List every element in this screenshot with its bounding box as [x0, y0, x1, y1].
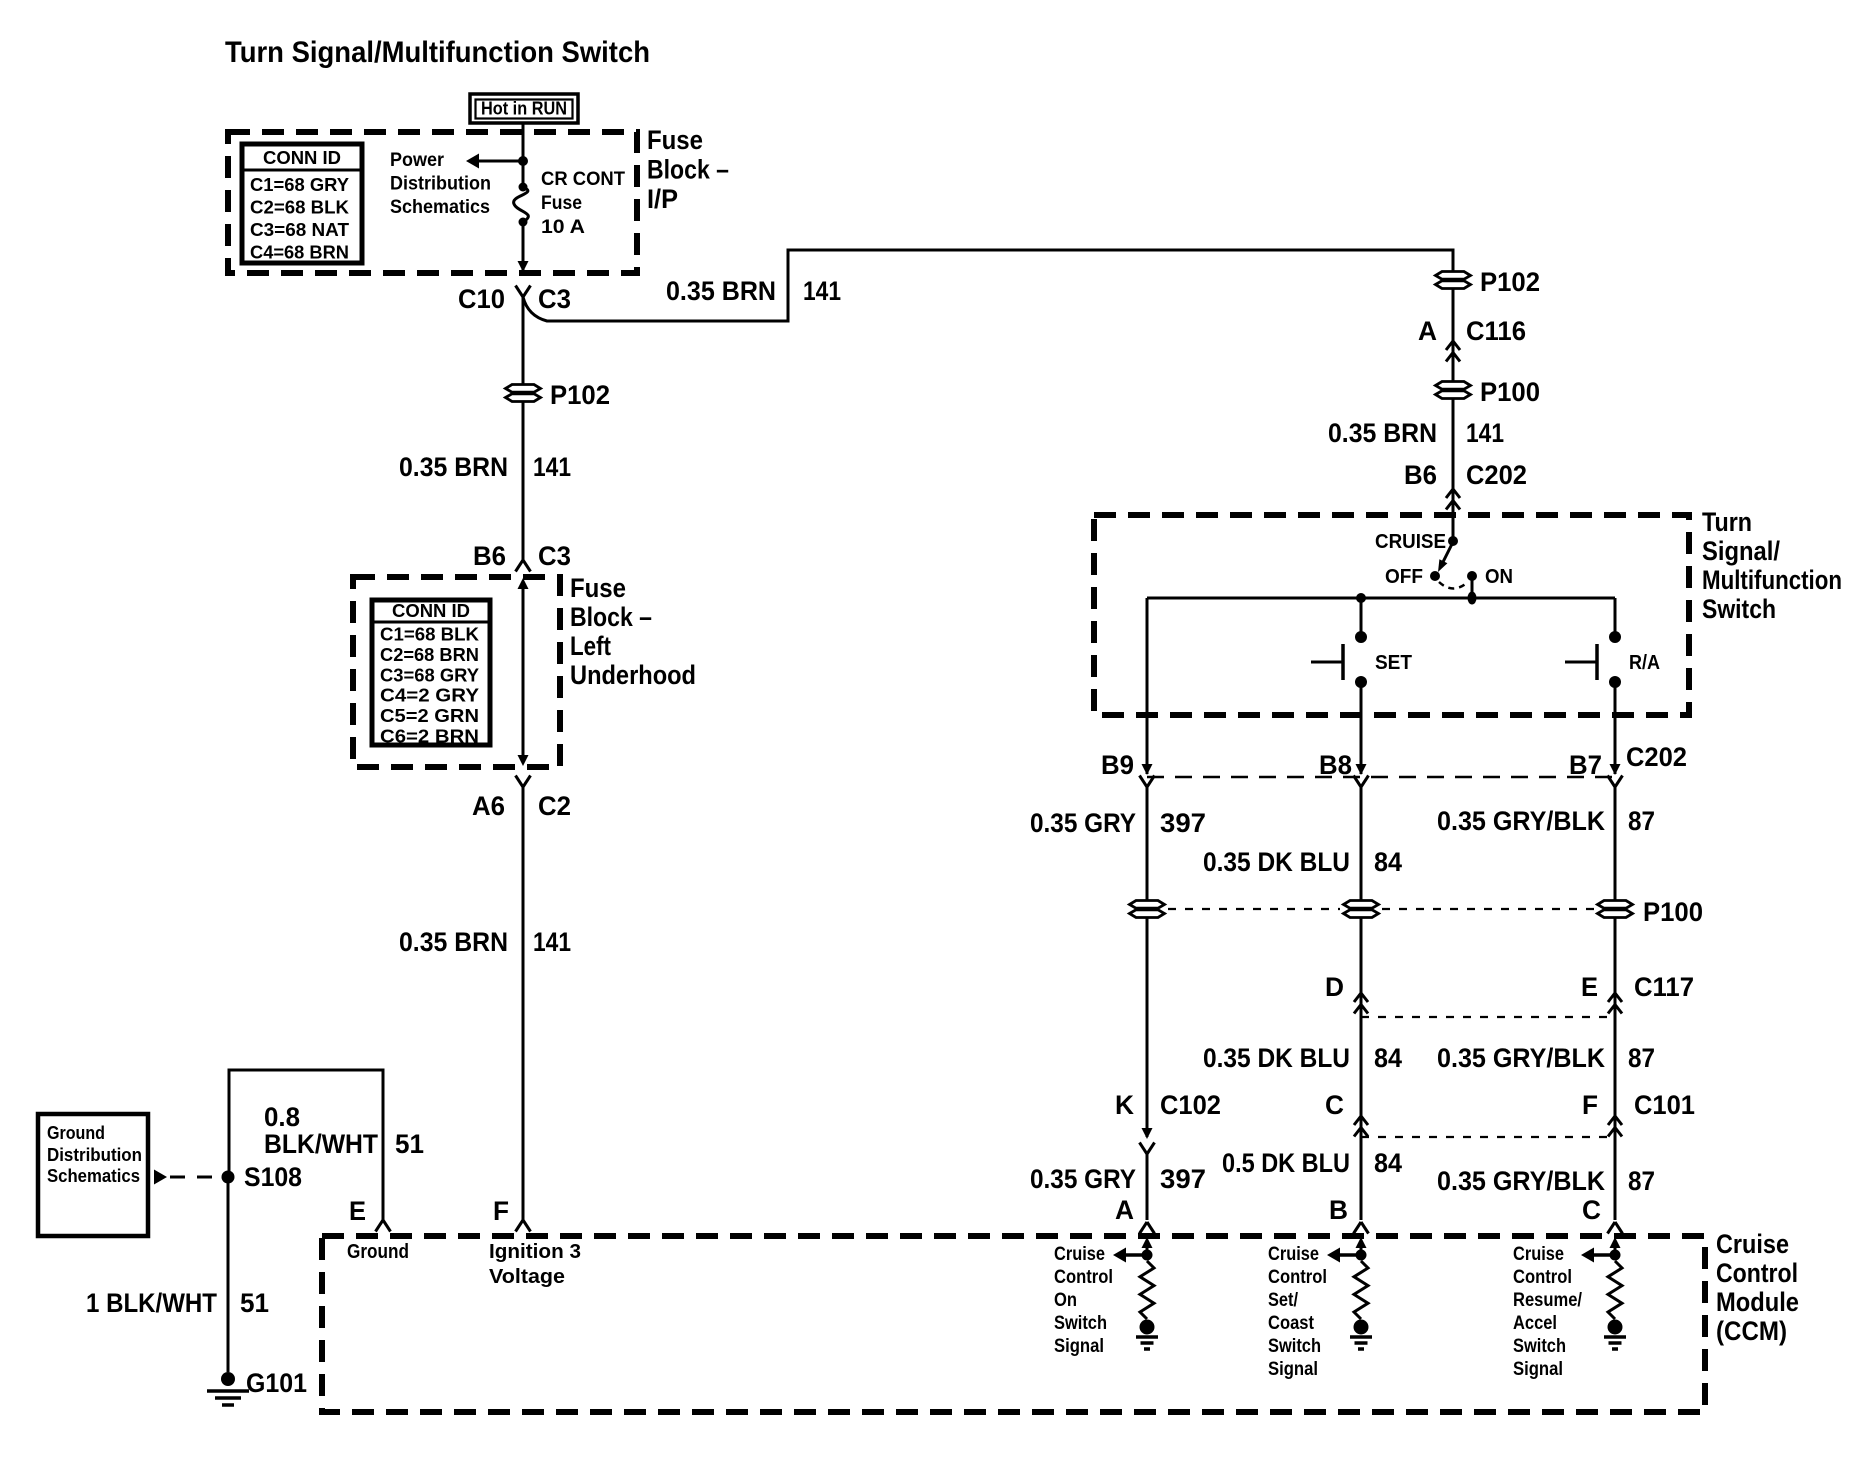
svg-text:87: 87: [1628, 1166, 1655, 1196]
svg-text:C5=2 GRN: C5=2 GRN: [380, 706, 479, 726]
svg-text:C102: C102: [1160, 1090, 1221, 1120]
svg-text:141: 141: [1466, 418, 1504, 448]
svg-text:Turn Signal/Multifunction Swit: Turn Signal/Multifunction Switch: [225, 36, 650, 69]
svg-text:0.5 DK BLU: 0.5 DK BLU: [1222, 1148, 1350, 1178]
svg-text:51: 51: [395, 1129, 424, 1159]
svg-text:Module: Module: [1716, 1287, 1799, 1317]
svg-text:Schematics: Schematics: [390, 197, 490, 218]
svg-text:Signal: Signal: [1054, 1336, 1104, 1357]
svg-text:C2=68 BLK: C2=68 BLK: [250, 198, 349, 218]
svg-text:0.35 GRY/BLK: 0.35 GRY/BLK: [1437, 1043, 1605, 1073]
svg-text:C202: C202: [1626, 742, 1687, 772]
svg-text:C3=68 GRY: C3=68 GRY: [380, 665, 479, 685]
svg-text:87: 87: [1628, 1043, 1655, 1073]
svg-text:C3: C3: [538, 284, 571, 314]
svg-text:C1=68 BLK: C1=68 BLK: [380, 625, 479, 645]
svg-text:Distribution: Distribution: [47, 1145, 142, 1165]
svg-text:Multifunction: Multifunction: [1702, 565, 1842, 595]
svg-text:Ground: Ground: [347, 1241, 409, 1263]
svg-text:B7: B7: [1569, 750, 1602, 780]
svg-text:C3: C3: [538, 541, 571, 571]
svg-text:D: D: [1325, 972, 1344, 1002]
svg-text:Resume/: Resume/: [1513, 1290, 1583, 1311]
svg-text:141: 141: [533, 927, 571, 957]
svg-text:E: E: [1581, 972, 1598, 1002]
svg-text:Hot in RUN: Hot in RUN: [481, 99, 567, 119]
svg-text:0.35 BRN: 0.35 BRN: [399, 452, 508, 482]
svg-text:B9: B9: [1101, 750, 1134, 780]
svg-text:C116: C116: [1466, 316, 1526, 346]
svg-text:B: B: [1329, 1195, 1348, 1225]
svg-text:Control: Control: [1716, 1258, 1798, 1288]
svg-text:Power: Power: [390, 150, 445, 171]
svg-text:OFF: OFF: [1385, 566, 1423, 588]
svg-text:B6: B6: [473, 541, 506, 571]
svg-text:0.8: 0.8: [264, 1102, 300, 1132]
svg-text:87: 87: [1628, 806, 1655, 836]
svg-text:C101: C101: [1634, 1090, 1695, 1120]
svg-text:10 A: 10 A: [541, 217, 585, 238]
svg-text:CONN ID: CONN ID: [263, 148, 341, 168]
svg-text:R/A: R/A: [1629, 652, 1660, 674]
svg-text:Cruise: Cruise: [1716, 1229, 1789, 1259]
svg-text:P100: P100: [1480, 377, 1540, 407]
svg-text:C3=68 NAT: C3=68 NAT: [250, 220, 349, 240]
svg-text:ON: ON: [1485, 566, 1513, 588]
svg-text:Signal/: Signal/: [1702, 536, 1780, 566]
svg-text:Switch: Switch: [1054, 1313, 1107, 1334]
svg-text:Left: Left: [570, 631, 611, 661]
svg-text:0.35 GRY/BLK: 0.35 GRY/BLK: [1437, 806, 1605, 836]
svg-text:Fuse: Fuse: [570, 573, 626, 603]
svg-text:F: F: [1582, 1090, 1598, 1120]
svg-text:C4=68 BRN: C4=68 BRN: [250, 243, 349, 263]
svg-text:E: E: [349, 1196, 366, 1226]
svg-text:0.35 DK BLU: 0.35 DK BLU: [1203, 847, 1350, 877]
svg-text:C202: C202: [1466, 460, 1527, 490]
svg-text:Cruise: Cruise: [1054, 1244, 1105, 1265]
svg-text:Signal: Signal: [1513, 1359, 1563, 1380]
svg-text:0.35 BRN: 0.35 BRN: [1328, 418, 1437, 448]
svg-text:Ground: Ground: [47, 1123, 105, 1143]
svg-text:141: 141: [803, 276, 841, 306]
svg-text:K: K: [1115, 1090, 1134, 1120]
svg-text:Fuse: Fuse: [647, 125, 703, 155]
svg-text:Switch: Switch: [1268, 1336, 1321, 1357]
svg-text:397: 397: [1160, 808, 1206, 838]
svg-text:84: 84: [1374, 847, 1402, 877]
svg-text:0.35 GRY: 0.35 GRY: [1030, 808, 1136, 838]
svg-text:Accel: Accel: [1513, 1313, 1557, 1334]
svg-text:Switch: Switch: [1702, 594, 1776, 624]
svg-text:51: 51: [240, 1288, 269, 1318]
svg-text:Control: Control: [1513, 1267, 1572, 1288]
svg-text:Set/: Set/: [1268, 1290, 1299, 1311]
svg-text:G101: G101: [246, 1368, 307, 1398]
svg-text:Cruise: Cruise: [1513, 1244, 1564, 1265]
svg-text:Control: Control: [1054, 1267, 1113, 1288]
svg-text:141: 141: [533, 452, 571, 482]
svg-text:B8: B8: [1319, 750, 1352, 780]
svg-text:397: 397: [1160, 1164, 1206, 1194]
svg-text:A6: A6: [472, 791, 505, 821]
svg-text:C2: C2: [538, 791, 571, 821]
svg-text:0.35 BRN: 0.35 BRN: [666, 276, 776, 306]
svg-text:0.35 BRN: 0.35 BRN: [399, 927, 508, 957]
svg-text:Coast: Coast: [1268, 1313, 1315, 1334]
svg-text:Cruise: Cruise: [1268, 1244, 1319, 1265]
svg-text:C: C: [1325, 1090, 1344, 1120]
svg-text:C117: C117: [1634, 972, 1694, 1002]
svg-text:Distribution: Distribution: [390, 174, 491, 195]
svg-text:0.35 GRY: 0.35 GRY: [1030, 1164, 1136, 1194]
svg-text:Switch: Switch: [1513, 1336, 1566, 1357]
svg-text:I/P: I/P: [647, 184, 678, 214]
svg-text:1 BLK/WHT: 1 BLK/WHT: [86, 1288, 217, 1318]
svg-text:84: 84: [1374, 1043, 1402, 1073]
svg-text:Schematics: Schematics: [47, 1166, 140, 1186]
svg-text:C: C: [1582, 1195, 1601, 1225]
svg-text:Underhood: Underhood: [570, 660, 696, 690]
svg-text:B6: B6: [1404, 460, 1437, 490]
svg-text:C1=68 GRY: C1=68 GRY: [250, 175, 349, 195]
svg-text:C4=2 GRY: C4=2 GRY: [380, 686, 479, 706]
svg-text:C6=2 BRN: C6=2 BRN: [380, 727, 479, 747]
svg-text:F: F: [493, 1196, 509, 1226]
svg-text:Signal: Signal: [1268, 1359, 1318, 1380]
svg-text:Control: Control: [1268, 1267, 1327, 1288]
svg-text:P102: P102: [1480, 267, 1540, 297]
svg-text:On: On: [1054, 1290, 1077, 1311]
svg-text:CRUISE: CRUISE: [1375, 531, 1446, 553]
svg-text:S108: S108: [244, 1162, 302, 1192]
svg-text:Ignition 3: Ignition 3: [489, 1241, 581, 1263]
svg-text:BLK/WHT: BLK/WHT: [264, 1129, 378, 1159]
svg-text:0.35 DK BLU: 0.35 DK BLU: [1203, 1043, 1350, 1073]
svg-text:Fuse: Fuse: [541, 193, 582, 214]
svg-text:84: 84: [1374, 1148, 1402, 1178]
svg-text:CR CONT: CR CONT: [541, 169, 625, 190]
svg-text:A: A: [1418, 316, 1437, 346]
svg-text:SET: SET: [1375, 652, 1412, 674]
svg-text:(CCM): (CCM): [1716, 1316, 1787, 1346]
svg-text:P100: P100: [1643, 897, 1703, 927]
svg-text:A: A: [1115, 1195, 1134, 1225]
svg-text:Turn: Turn: [1702, 507, 1752, 537]
svg-text:C2=68 BRN: C2=68 BRN: [380, 645, 479, 665]
svg-text:Voltage: Voltage: [489, 1266, 565, 1288]
svg-text:C10: C10: [458, 284, 505, 314]
svg-text:Block –: Block –: [647, 155, 729, 185]
svg-text:Block –: Block –: [570, 602, 652, 632]
svg-text:P102: P102: [550, 380, 610, 410]
svg-text:CONN ID: CONN ID: [392, 601, 470, 621]
svg-text:0.35 GRY/BLK: 0.35 GRY/BLK: [1437, 1166, 1605, 1196]
